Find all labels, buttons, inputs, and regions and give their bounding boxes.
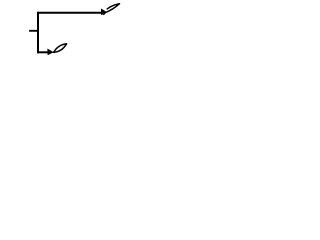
wire: vertical bus (37, 12, 39, 54)
wire: left stub tick (29, 30, 38, 32)
node: top ellipse terminal (104, 4, 120, 15)
node: bottom ellipse terminal (54, 44, 67, 53)
wire: bottom horizontal branch (37, 51, 49, 53)
wire: top horizontal branch (37, 12, 102, 14)
arrowhead on top branch (101, 9, 107, 15)
arrowhead on bottom branch (48, 49, 54, 55)
